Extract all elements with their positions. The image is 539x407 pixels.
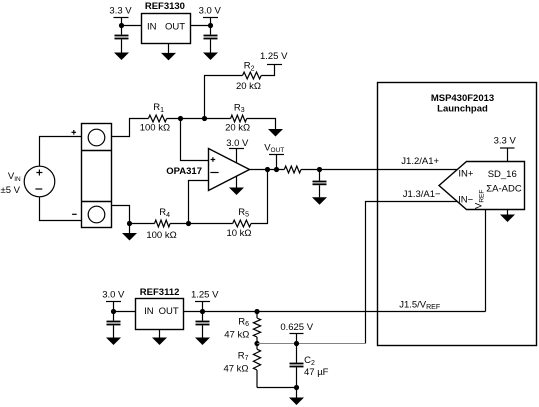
svg-text:0.625 V: 0.625 V xyxy=(280,322,313,333)
wire xyxy=(170,223,233,225)
wire xyxy=(191,25,211,27)
junction (R2 tap) xyxy=(202,116,207,121)
wire (ADC IN- to 0.625V node) xyxy=(366,202,458,344)
ground (input return) xyxy=(122,224,137,241)
junction (C2 bottom) xyxy=(294,385,299,390)
svg-text:J1.2/A1+: J1.2/A1+ xyxy=(401,156,439,167)
wire (1.25V VREF row to ADC) xyxy=(203,311,486,313)
ground (REF3130 GND pin) xyxy=(161,44,176,61)
voltage regulator REF3112 xyxy=(136,299,184,330)
resistor R1 xyxy=(140,102,170,133)
wire xyxy=(261,65,274,76)
junction (feedback node) xyxy=(265,167,270,172)
svg-text:SD_16: SD_16 xyxy=(488,169,517,180)
wire (to op-amp + input) xyxy=(181,119,209,161)
wire xyxy=(122,25,142,27)
svg-text:J1.3/A1−: J1.3/A1− xyxy=(403,189,441,200)
node 3.0 V tap (REF3112 input) xyxy=(102,289,125,311)
ground (divider) xyxy=(289,388,304,406)
ground (ADC) xyxy=(500,210,515,223)
wire 0.625V row xyxy=(257,343,366,345)
svg-text:10 kΩ: 10 kΩ xyxy=(226,228,251,239)
svg-text:±5 V: ±5 V xyxy=(1,185,21,196)
wire xyxy=(130,223,155,225)
svg-text:Launchpad: Launchpad xyxy=(437,103,488,114)
node 3.3 V tap (ADC supply) xyxy=(494,135,517,161)
junction (C2 top) xyxy=(294,341,299,346)
node 3.0 V output tap xyxy=(199,6,222,26)
node 0.625 V tap xyxy=(280,322,313,344)
svg-text:OUT: OUT xyxy=(165,21,185,32)
junction (op-amp - input node) xyxy=(186,221,191,226)
ground (op-amp) xyxy=(229,176,244,195)
resistor (RC filter) xyxy=(284,166,301,173)
capacitor (RC filter) xyxy=(313,170,327,198)
wire (to op-amp - input) xyxy=(189,181,209,224)
wire (R2 branch) xyxy=(205,76,243,119)
wire xyxy=(112,119,149,137)
MCU board MSP430F2013 Launchpad xyxy=(378,83,537,346)
junction node A (op-amp + input) xyxy=(178,116,183,121)
ADC SD_16 sigma-delta xyxy=(439,162,525,210)
svg-text:OPA317: OPA317 xyxy=(166,166,202,177)
ground xyxy=(114,53,129,61)
svg-text:100 kΩ: 100 kΩ xyxy=(140,122,170,133)
svg-text:3.0 V: 3.0 V xyxy=(102,289,125,300)
junction (VOUT node) xyxy=(274,167,279,172)
voltage regulator REF3130 xyxy=(142,14,191,44)
svg-text:3.3 V: 3.3 V xyxy=(109,6,132,17)
junction (filter cap node) xyxy=(317,167,322,172)
svg-text:1.25 V: 1.25 V xyxy=(191,289,219,300)
wire xyxy=(40,197,82,221)
ground (filter cap) xyxy=(312,197,327,205)
wire xyxy=(184,311,203,313)
wire (op-amp output) xyxy=(250,169,285,171)
node 3.3 V supply tap (REF3130 input) xyxy=(109,6,132,26)
capacitor (REF3130 input bypass) xyxy=(115,26,129,53)
svg-text:REF3130: REF3130 xyxy=(145,1,185,12)
svg-text:IN: IN xyxy=(147,21,157,32)
ground (REF3112 GND pin) xyxy=(152,330,167,346)
svg-text:IN−: IN− xyxy=(458,194,474,205)
wire (VREF pin down to J1.5 row) xyxy=(485,210,487,312)
node VOUT tap xyxy=(264,142,284,169)
junction xyxy=(111,309,116,314)
wire xyxy=(167,118,231,120)
svg-text:100 kΩ: 100 kΩ xyxy=(146,230,176,241)
wire xyxy=(114,311,136,313)
node 1.25 V output tap xyxy=(191,289,219,311)
svg-text:47 kΩ: 47 kΩ xyxy=(223,363,248,374)
wire xyxy=(40,137,82,167)
svg-text:3.3 V: 3.3 V xyxy=(494,135,517,146)
capacitor C2 xyxy=(290,344,329,388)
svg-text:20 kΩ: 20 kΩ xyxy=(225,122,250,133)
node 3.0 V supply tap (op-amp) xyxy=(226,138,249,163)
capacitor (REF3112 output) xyxy=(196,312,210,338)
label - (connector) xyxy=(72,213,77,215)
voltage source V_IN xyxy=(24,166,55,197)
resistor R4 xyxy=(146,207,176,241)
wire (bottom rail) xyxy=(257,387,297,389)
svg-text:IN: IN xyxy=(144,306,154,317)
connector J1 (terminal block) xyxy=(82,124,112,228)
junction (R6 tap) xyxy=(254,309,259,314)
svg-text:IN+: IN+ xyxy=(458,169,474,180)
wire xyxy=(247,119,276,130)
wire (connector - to R4 row) xyxy=(112,206,130,224)
svg-text:REF3112: REF3112 xyxy=(140,287,180,298)
junction (0.625V node at divider) xyxy=(254,341,259,346)
capacitor (REF3130 output) xyxy=(204,26,218,53)
ground xyxy=(106,338,121,346)
ground (R3) xyxy=(268,129,283,137)
resistor R3 xyxy=(225,102,250,133)
op-amp U1 OPA317 xyxy=(209,149,250,191)
resistor R7 xyxy=(223,344,260,388)
wire (feedback to output) xyxy=(251,170,268,224)
svg-text:ΣA-ADC: ΣA-ADC xyxy=(486,183,522,194)
svg-text:1.25 V: 1.25 V xyxy=(260,51,288,62)
svg-text:3.0 V: 3.0 V xyxy=(199,6,222,17)
capacitor (REF3112 input bypass) xyxy=(107,312,121,338)
junction xyxy=(200,309,205,314)
junction (3.0 V node) xyxy=(208,23,213,28)
resistor R6 xyxy=(224,312,260,344)
label + (connector) xyxy=(72,130,77,135)
ground xyxy=(195,338,210,346)
ground xyxy=(203,53,218,61)
junction xyxy=(127,221,132,226)
svg-text:OUT: OUT xyxy=(159,306,179,317)
node 1.25 V tap xyxy=(260,51,288,64)
svg-text:47 kΩ: 47 kΩ xyxy=(224,329,249,340)
junction (3.3 V node) xyxy=(119,23,124,28)
svg-text:3.0 V: 3.0 V xyxy=(226,138,249,149)
svg-text:20 kΩ: 20 kΩ xyxy=(236,81,261,92)
resistor R5 xyxy=(226,207,251,239)
resistor R2 xyxy=(236,61,261,92)
wire (to ADC IN+) xyxy=(301,169,457,171)
svg-text:47 µF: 47 µF xyxy=(304,367,329,378)
